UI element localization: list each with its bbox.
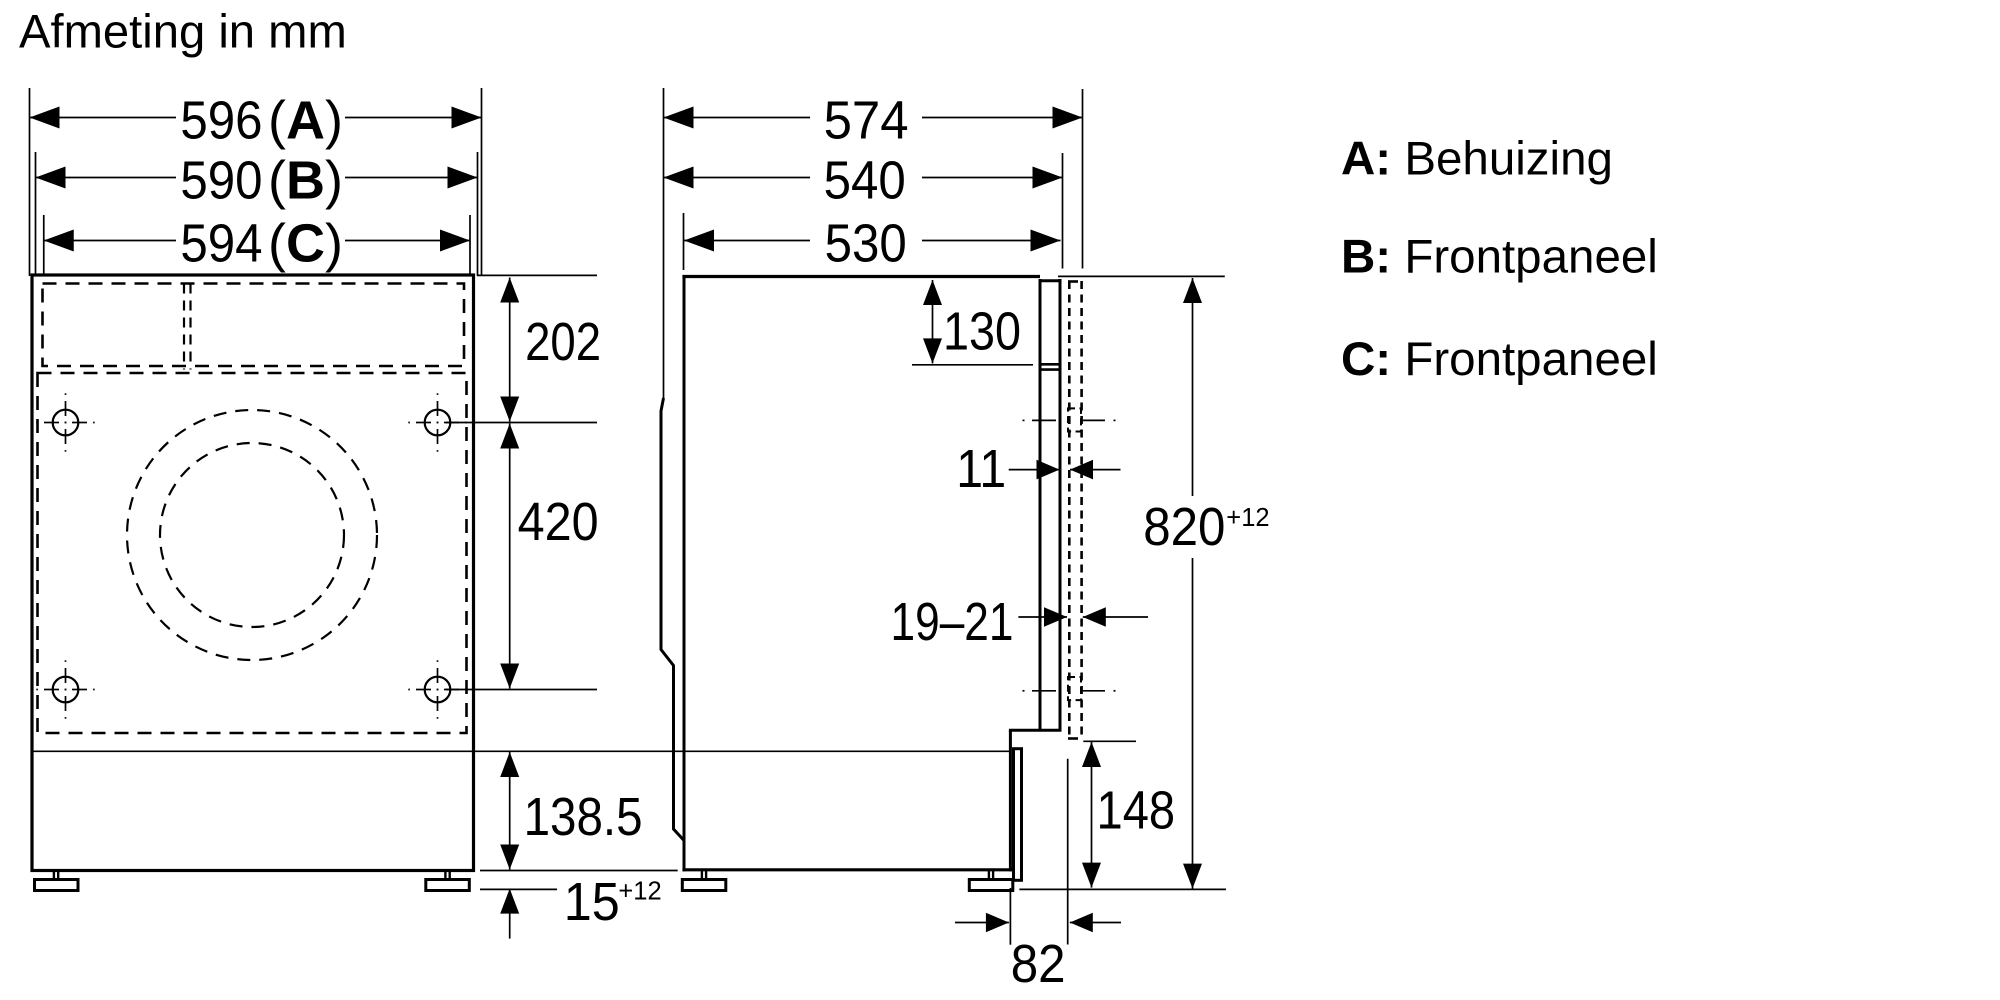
mounting hole top-left: circle (53, 410, 79, 436)
svg-text:(A): (A) (268, 91, 343, 151)
side view: bottom edge (682, 868, 1012, 871)
dim 596(A): right extension line (481, 88, 483, 276)
dim 594(C): left arrowhead (44, 230, 74, 252)
svg-text:B: Frontpaneel: B: Frontpaneel (1341, 231, 1658, 284)
dim 590(B): right arrowhead (448, 167, 478, 189)
side view: upper hinge centerline (1023, 419, 1025, 421)
dim 574: left extension line (663, 88, 665, 398)
dim 820: bottom arrowhead (1183, 864, 1202, 889)
svg-text:202: 202 (525, 312, 601, 372)
svg-text:420: 420 (518, 492, 599, 552)
svg-text:594: 594 (180, 214, 262, 274)
svg-text:540: 540 (824, 151, 906, 211)
svg-text:596: 596 (180, 91, 262, 151)
dim 148: bottom arrowhead (1082, 863, 1101, 888)
dim 574: left arrowhead (664, 107, 694, 129)
dim 11: left arrowhead (1037, 460, 1060, 480)
dim 530: right arrowhead (1031, 230, 1061, 252)
side view: lower furniture door top cap (1012, 747, 1023, 750)
front view: right foot plate (426, 880, 470, 891)
side view: appliance door front face (1059, 279, 1062, 730)
front view: large dashed front-panel rectangle (38, 373, 467, 733)
dim 574: right extension line (1082, 89, 1084, 269)
svg-text:820: 820 (1143, 497, 1225, 557)
svg-text:11: 11 (956, 439, 1006, 499)
ref line top right of front view (477, 274, 597, 276)
dim 590(B): right extension line (477, 152, 479, 276)
svg-text:148: 148 (1097, 780, 1176, 840)
side view: furniture panel dashed front face (1080, 281, 1083, 739)
side view: appliance door top cap (1039, 279, 1062, 282)
dim 590(B): left arrowhead (36, 167, 66, 189)
dim 596(A): dimension line (30, 117, 177, 119)
side view: lower furniture door rear face (1012, 749, 1015, 882)
dim 594(C): right extension line (469, 215, 471, 276)
dim 138.5: top arrowhead (500, 752, 519, 777)
side view: front foot plate (969, 880, 1013, 891)
side view: furniture panel dashed top cap (1068, 280, 1083, 283)
dim 138.5: dimension line (509, 752, 511, 870)
dim 530: left extension line (683, 213, 685, 270)
dim 596(A): right arrowhead (452, 107, 482, 129)
dim 420: dimension line (509, 424, 511, 689)
dim 202: top arrowhead (500, 278, 519, 303)
dim 594(C): right arrowhead (440, 230, 470, 252)
svg-text:590: 590 (180, 151, 262, 211)
front view: dashed drum inner circle (160, 443, 344, 627)
front view: left foot plate (35, 880, 79, 891)
dim 11: right arrowhead (1070, 460, 1093, 480)
dim 820: dimension line upper part (1192, 278, 1194, 496)
side view: lower furniture door front face (1020, 749, 1023, 882)
dim 82: right arrowhead (1070, 913, 1093, 933)
dim 82: left arrow line (955, 922, 1009, 924)
side view: rear bulge outline (661, 398, 684, 841)
mounting hole top-left: vertical centerline (65, 393, 67, 395)
dim 596(A): left arrowhead (30, 107, 60, 129)
svg-text:574: 574 (824, 91, 909, 151)
dim 19-21: right arrow line (1083, 616, 1148, 618)
dim 130: top arrowhead (923, 280, 942, 305)
dim 420: bottom arrowhead (500, 664, 519, 689)
dim 130: dimension line (932, 280, 934, 363)
svg-text:(C): (C) (268, 214, 343, 274)
dim 82: left arrowhead (986, 913, 1009, 933)
dim 540: right arrowhead (1033, 167, 1063, 189)
dim 590(B): dimension line (36, 177, 177, 179)
svg-text:19–21: 19–21 (891, 592, 1014, 652)
mounting hole bottom-right: circle (425, 677, 451, 703)
dim 574: dimension line (664, 117, 811, 119)
dim 11: left arrow line (1009, 469, 1060, 471)
side view: door joint upper line (1039, 363, 1062, 366)
svg-text:(B): (B) (268, 151, 343, 211)
side view: back edge (683, 275, 686, 871)
mounting hole bottom-left: vertical centerline (65, 660, 67, 662)
side view: furniture panel dashed bottom cap (1068, 737, 1083, 740)
side view: door joint lower line (1039, 368, 1062, 371)
front view: right foot stem (444, 871, 446, 880)
dim 15: arrow shaft (509, 889, 511, 939)
dim 82: right arrow line (1070, 922, 1121, 924)
ref line through bottom-right hole (446, 689, 598, 691)
mounting hole top-left: horizontal centerline (36, 422, 38, 424)
dim 540: dimension line (664, 177, 811, 179)
ref line through top-right hole (446, 422, 598, 424)
dim 820: top arrowhead (1183, 278, 1202, 303)
mounting hole bottom-left: circle (53, 677, 79, 703)
front view: dashed drum outer circle (127, 410, 377, 660)
side view: appliance door rear face (1039, 279, 1042, 730)
front view: dashed top strip (worktop recess) (43, 284, 465, 367)
dim 148: top arrowhead (1082, 742, 1101, 767)
side view: furniture panel dashed rear face (1068, 281, 1071, 739)
top reference line (furniture top) (1058, 275, 1225, 277)
dim 19-21: left arrow line (1018, 616, 1067, 618)
mounting hole bottom-right: vertical centerline (437, 660, 439, 662)
side view: lower hinge centerline (1023, 690, 1025, 692)
side view: upper hinge dashed box (1068, 408, 1081, 431)
front view: strip divider dashed line right (189, 284, 191, 370)
svg-text:C: Frontpaneel: C: Frontpaneel (1341, 333, 1658, 386)
dim 420: top arrowhead (500, 424, 519, 449)
svg-text:138.5: 138.5 (524, 787, 643, 847)
dim 82: left extension line (1009, 888, 1011, 945)
mounting hole top-right: horizontal centerline + reference line (408, 422, 410, 424)
side view: front foot stem (988, 871, 990, 880)
floor reference line right (side view) (1019, 888, 1226, 890)
dim 574: right arrowhead (1053, 107, 1083, 129)
svg-text:15: 15 (564, 872, 620, 932)
svg-text:530: 530 (825, 214, 907, 274)
side view: plinth recess front edge (1009, 730, 1012, 871)
dim 202: dimension line (509, 278, 511, 422)
dim 596(A): left extension line (29, 88, 31, 276)
dim 130: reference line (912, 364, 1033, 366)
dim 594(C): dimension line (44, 240, 176, 242)
side view: rear foot stem (701, 871, 703, 880)
dim 148: dimension line (1091, 742, 1093, 888)
dim 530: left arrowhead (684, 230, 714, 252)
dim 11: right arrow line (1070, 469, 1121, 471)
front view: left foot stem (53, 871, 55, 880)
mounting hole top-right: circle (425, 410, 451, 436)
side view: lower furniture door bottom cap (1012, 879, 1023, 882)
dim 82: right extension line (1067, 759, 1069, 945)
svg-text:+12: +12 (618, 878, 661, 906)
dim 540: left arrowhead (664, 167, 694, 189)
side view: top edge (682, 275, 1040, 278)
dim 820: dimension line lower part (1192, 558, 1194, 889)
svg-text:Afmeting in mm: Afmeting in mm (19, 6, 347, 59)
side view: rear foot plate (682, 880, 726, 891)
dim 540: right extension line (1062, 153, 1064, 269)
dim 15: up arrowhead (500, 889, 519, 914)
mounting hole bottom-right: horizontal centerline + reference line (408, 689, 410, 691)
mounting hole top-right: vertical centerline (437, 393, 439, 395)
floor reference line left (front view) (480, 888, 557, 890)
svg-text:+12: +12 (1226, 504, 1269, 532)
svg-text:82: 82 (1011, 934, 1066, 994)
mounting hole bottom-left: horizontal centerline (36, 689, 38, 691)
dim 138.5: bottom arrowhead (500, 845, 519, 870)
front view: strip divider dashed line left (183, 284, 185, 370)
case bottom reference line (480, 870, 678, 872)
dim 19-21: right arrowhead (1083, 607, 1106, 627)
dim 148: reference line (1083, 740, 1136, 742)
dim 130: bottom arrowhead (923, 338, 942, 363)
front view: plinth separation line (runs into side view) (33, 750, 1010, 752)
dim 19-21: left arrowhead (1044, 607, 1067, 627)
svg-text:A: Behuizing: A: Behuizing (1341, 133, 1613, 186)
svg-text:130: 130 (943, 302, 1021, 362)
side view: lower hinge dashed box (1068, 677, 1081, 700)
dim 530: dimension line (684, 240, 810, 242)
side view: step line above plinth recess (1009, 729, 1062, 732)
dim 594(C): left extension line (43, 215, 45, 276)
dim 590(B): left extension line (35, 152, 37, 276)
dim 202: bottom arrowhead (500, 397, 519, 422)
washing machine front view: case outline (32, 275, 474, 871)
